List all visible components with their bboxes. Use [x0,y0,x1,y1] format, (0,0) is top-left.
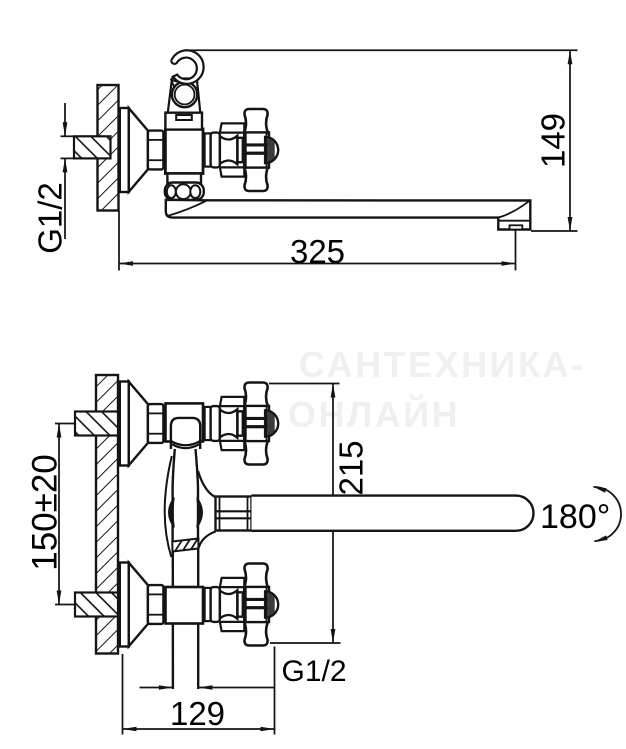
ball joint crescents [169,498,203,528]
hook bracket [168,79,201,113]
lower supply pipe [75,593,118,617]
hook ring [172,82,197,107]
svg-text:149: 149 [535,113,572,168]
dimension G1/2 (pipe thread, top view) [32,103,69,254]
rotation 180 degrees [540,484,621,544]
upper valve body block [166,403,204,441]
dimension 150±20 [26,424,76,605]
svg-text:ОНЛАЙН: ОНЛАЙН [288,393,460,435]
shower hook adapter [165,113,202,130]
spout (side view) [166,200,531,230]
decorative ball ring [165,183,204,201]
ball joint outer shell [165,456,172,557]
svg-text:G1/2: G1/2 [32,182,69,254]
svg-text:129: 129 [170,695,225,732]
body tube upper section [173,449,198,541]
supply pipe (side view) [61,136,111,158]
svg-text:325: 325 [290,233,345,270]
aerator on spout tip [510,225,523,229]
swivel spout (front view) [252,496,534,531]
dimension 215 [269,384,370,644]
dimension 325 [119,211,516,271]
svg-text:180°: 180° [540,498,610,536]
faucet body (top view) [165,129,203,174]
wall plate (front view) [96,375,118,654]
wall plate (side view) [98,85,119,211]
lower valve and handle (front view) [205,564,279,646]
watermark [288,344,585,435]
lower valve body block [166,587,204,624]
lower escutcheon and nut [120,563,164,647]
dimension G1/2 (bottom view) [140,655,347,690]
svg-text:G1/2: G1/2 [282,655,347,688]
upper valve and handle (front view) [205,383,279,465]
svg-text:САНТЕХНИКА-: САНТЕХНИКА- [299,344,585,385]
body tube lower section [173,548,198,689]
svg-text:150±20: 150±20 [26,454,65,571]
spout nut [216,497,252,531]
body collar [167,174,201,184]
valve and cross handle (top view) [205,109,279,191]
svg-text:215: 215 [333,440,370,495]
spout connection neck [198,471,216,548]
shower hook [171,50,203,84]
body bell [171,418,200,449]
dimension 149 [190,50,578,231]
hatched joint band [172,539,198,552]
escutcheon and hex nut (top view) [120,108,164,192]
upper escutcheon and nut [120,382,164,466]
dimension 129 [123,647,275,735]
upper supply pipe [75,412,118,436]
